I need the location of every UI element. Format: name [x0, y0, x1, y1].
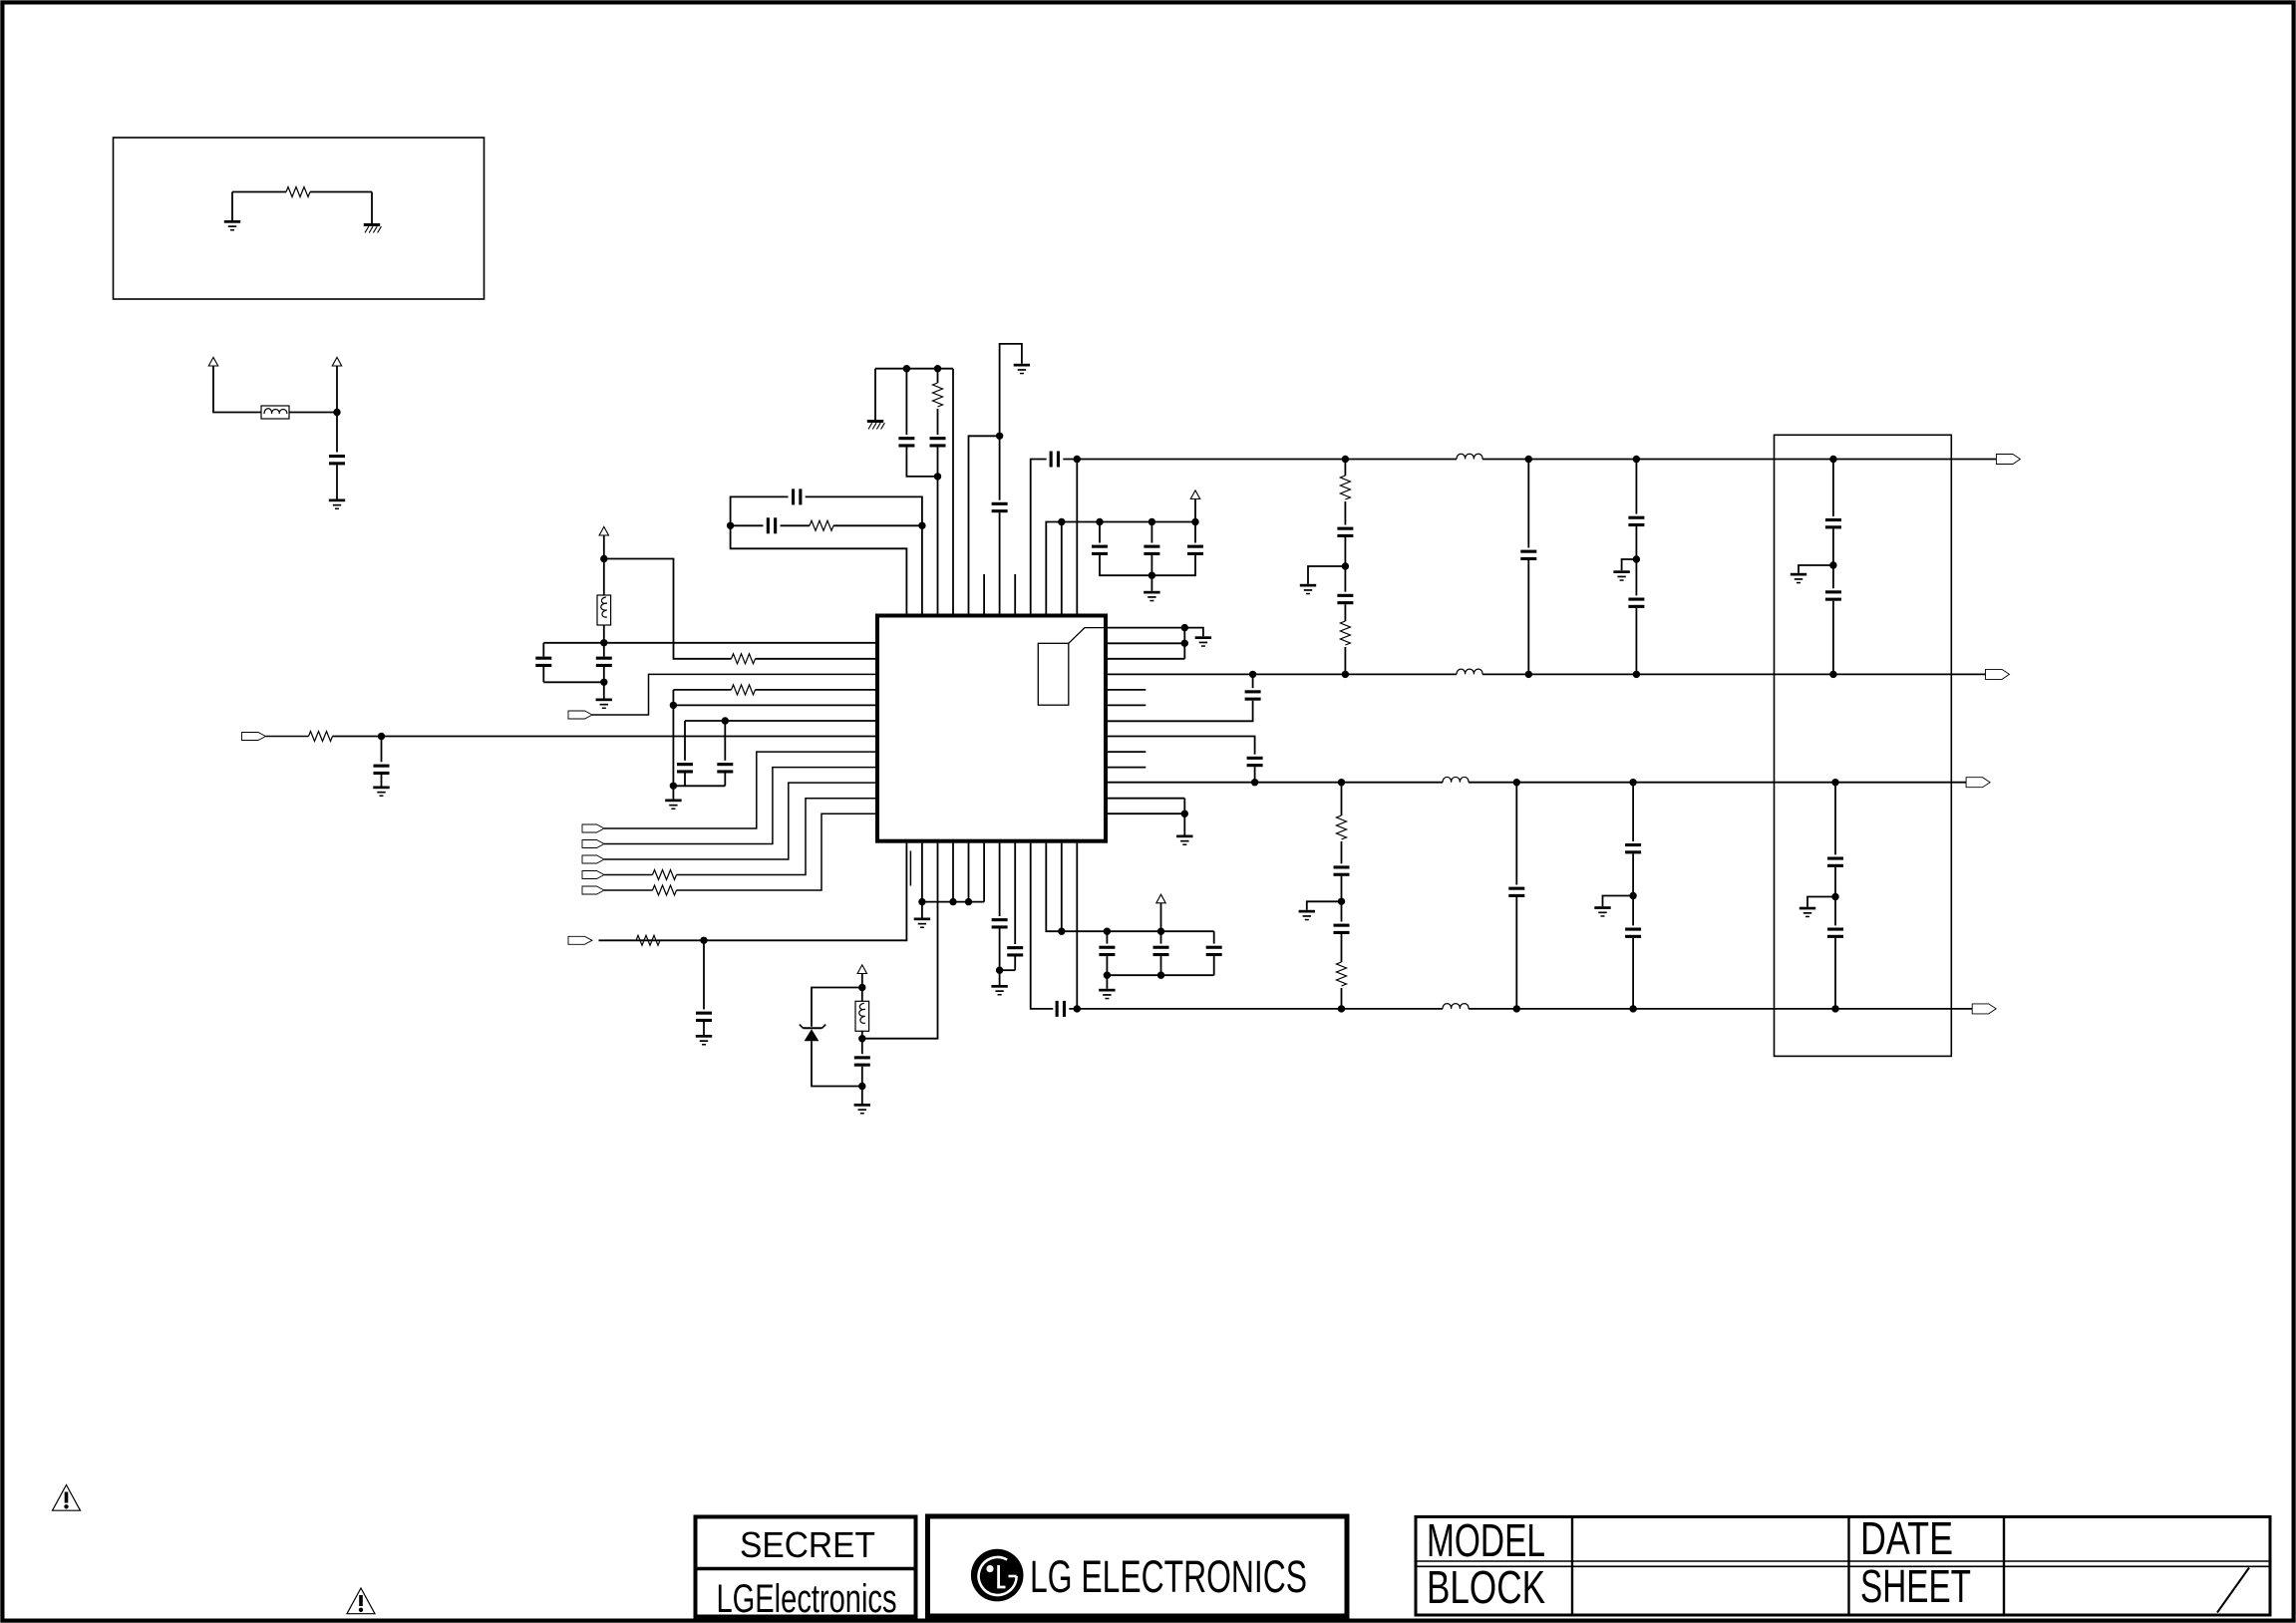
wire pinR9 stub — [1108, 767, 1146, 769]
wire — [604, 874, 653, 876]
svg-text:SHEET: SHEET — [1860, 1560, 1971, 1612]
wire — [703, 1022, 705, 1035]
wire — [806, 496, 922, 525]
resistor R6 — [933, 383, 943, 407]
connector tag OUT1 — [1996, 455, 2020, 465]
capacitor C6 — [374, 765, 390, 775]
wire — [673, 689, 731, 691]
wire — [1107, 974, 1213, 976]
capacitor C4 — [677, 763, 693, 773]
capacitor C26 — [1337, 527, 1353, 537]
wire — [1000, 344, 1022, 436]
wire — [1069, 628, 1108, 644]
wire pinR8 stub — [1108, 751, 1146, 753]
wire — [672, 705, 674, 786]
series capacitor C12 — [1050, 452, 1060, 468]
wire — [703, 940, 705, 1009]
wire — [1635, 526, 1637, 559]
capacitor C29 — [1628, 516, 1644, 526]
node junction — [1633, 671, 1640, 678]
wire — [1834, 897, 1836, 926]
capacitor C24 — [1245, 690, 1261, 700]
wire — [673, 785, 725, 787]
node junction — [1829, 561, 1836, 568]
title table col divider — [1571, 1517, 1573, 1616]
node junction — [1338, 1005, 1345, 1012]
node junction — [965, 898, 972, 905]
resistor R4 — [653, 870, 677, 880]
wire — [604, 768, 875, 844]
node junction — [1181, 640, 1188, 647]
wire — [1106, 956, 1108, 989]
wire — [1341, 876, 1343, 902]
node junction — [1148, 518, 1155, 525]
capacitor C36 — [1625, 843, 1641, 853]
wire pin5 — [673, 704, 875, 706]
wire — [1151, 555, 1195, 575]
resistor R11 — [1340, 621, 1350, 645]
wire pinR11 — [1108, 798, 1184, 800]
wire pinR4 stub — [1108, 689, 1146, 691]
node junction — [1831, 1005, 1838, 1012]
wire — [724, 721, 726, 761]
capacitor C39 — [1827, 928, 1843, 938]
svg-text:DATE: DATE — [1860, 1512, 1953, 1564]
resistor R9 — [636, 935, 660, 945]
wire — [542, 643, 544, 657]
node junction — [1633, 555, 1640, 562]
wire — [1527, 460, 1529, 548]
connector tag P2 — [242, 733, 266, 741]
wire — [336, 466, 338, 499]
node junction — [1148, 572, 1155, 579]
node junction — [858, 1035, 865, 1042]
wire pinT12 — [1076, 460, 1078, 614]
wire — [861, 1031, 863, 1039]
wire — [1000, 969, 1016, 971]
wire — [231, 192, 233, 221]
wire — [861, 1039, 863, 1055]
wire rail1 segment — [1063, 459, 1457, 461]
wire — [1308, 566, 1345, 584]
ferrite bead FB3 — [855, 1001, 869, 1031]
wire pinR12 — [1108, 812, 1184, 814]
wire — [874, 369, 876, 420]
title table row divider — [1416, 1560, 2270, 1562]
node junction — [670, 783, 677, 790]
wire — [861, 974, 863, 988]
wire — [684, 774, 686, 787]
wire — [684, 721, 686, 761]
wire — [1834, 867, 1836, 897]
wire — [906, 448, 937, 477]
power arrow VZ1 — [857, 965, 866, 974]
wire rail1 segment — [1482, 459, 1996, 461]
wire pinT2 — [921, 525, 923, 613]
series capacitor C9 — [767, 517, 777, 533]
secret box divider — [694, 1567, 918, 1570]
capacitor C5 — [717, 763, 733, 773]
wire rail4 segment — [1469, 1008, 1972, 1010]
wire — [1150, 522, 1152, 543]
capacitor C8 — [930, 437, 946, 447]
wire — [1254, 767, 1256, 783]
capacitor C31 — [1825, 518, 1841, 528]
wire — [875, 368, 953, 370]
wire — [1341, 841, 1343, 863]
wire pin2 — [756, 658, 876, 660]
ground — [696, 1035, 712, 1046]
wire — [833, 524, 922, 526]
wire — [604, 783, 875, 859]
wire — [999, 929, 1001, 986]
wire pinT10 — [1046, 522, 1195, 614]
capacitor C37 — [1625, 928, 1641, 938]
wire — [1635, 460, 1637, 514]
warning triangle 2 — [347, 1588, 375, 1614]
wire — [812, 1041, 862, 1086]
wire — [603, 559, 605, 596]
wire pinT9 — [1031, 460, 1047, 614]
wire — [1014, 957, 1016, 971]
wire — [1108, 628, 1203, 637]
LG logo ring — [979, 1557, 1017, 1595]
node junction — [600, 679, 607, 686]
wire rail2 segment — [1482, 673, 1986, 675]
wire — [1183, 799, 1185, 814]
wire — [937, 448, 939, 477]
node junction — [1181, 811, 1188, 817]
svg-text:MODEL: MODEL — [1427, 1514, 1545, 1566]
node junction — [1181, 624, 1188, 631]
node junction — [1104, 928, 1111, 935]
capacitor C25 — [1247, 757, 1263, 767]
ground — [1014, 364, 1030, 375]
wire pin4 — [756, 689, 876, 691]
wire pinT6 stub — [983, 574, 985, 614]
wire — [1213, 956, 1215, 975]
capacitor C14 — [1144, 545, 1159, 555]
node junction — [1074, 456, 1081, 463]
node junction — [903, 365, 910, 372]
LG logo G bar — [1009, 1575, 1017, 1578]
node junction — [727, 522, 734, 529]
resistor R5 — [653, 885, 677, 895]
wire pinB10 — [1046, 843, 1213, 932]
ground — [1800, 907, 1815, 918]
wire — [1341, 934, 1343, 962]
wire — [603, 643, 605, 657]
wire — [1632, 896, 1634, 926]
capacitor C11 — [992, 502, 1008, 512]
wire — [677, 813, 876, 890]
node junction — [1629, 892, 1636, 899]
capacitor C7 — [898, 437, 914, 447]
wire pinT5 — [969, 436, 1000, 613]
wire — [603, 682, 605, 698]
node junction — [918, 898, 925, 905]
capacitor C15 — [1187, 545, 1203, 555]
ground — [1144, 591, 1159, 602]
wire — [781, 524, 811, 526]
capacitor C27 — [1337, 594, 1353, 604]
node junction — [1525, 456, 1532, 463]
wire — [1344, 566, 1346, 592]
wire — [1832, 565, 1834, 588]
wire — [1515, 897, 1517, 1009]
wire — [1622, 559, 1637, 570]
resistor R13 — [1337, 962, 1347, 986]
node junction — [934, 365, 941, 372]
node junction — [1074, 1005, 1081, 1012]
wire — [672, 690, 674, 706]
ground — [854, 1104, 870, 1115]
wire — [604, 559, 732, 659]
wire — [861, 1067, 863, 1087]
wire — [213, 366, 261, 413]
wire — [1834, 938, 1836, 1009]
ground — [665, 800, 681, 811]
wire — [1252, 674, 1254, 688]
wire — [1100, 555, 1151, 575]
inductor L1 — [1457, 454, 1482, 459]
connector tag OUT3 — [1966, 778, 1990, 788]
wire pin1 rail — [543, 642, 875, 644]
ground — [1299, 910, 1315, 921]
chassis ground — [867, 420, 885, 430]
resistor R7 — [810, 520, 833, 530]
inductor L2 — [1443, 1004, 1469, 1009]
svg-text:LGElectronics: LGElectronics — [717, 1577, 897, 1621]
title table outline — [1416, 1517, 2270, 1616]
wire — [1344, 460, 1346, 477]
wire pinT3 — [937, 477, 939, 614]
power arrow VCC2 — [332, 357, 341, 366]
wire — [1832, 528, 1834, 565]
svg-text:SECRET: SECRET — [740, 1524, 875, 1565]
power arrow VA2 — [1156, 894, 1165, 903]
capacitor C16 — [696, 1012, 712, 1022]
wire — [542, 667, 544, 682]
wire — [1341, 783, 1343, 815]
node junction — [996, 967, 1003, 974]
wire — [1213, 931, 1215, 943]
wire — [1527, 560, 1529, 674]
title table row divider2 — [1416, 1565, 2270, 1567]
node junction — [700, 937, 707, 944]
wire pinT1 — [731, 525, 907, 613]
node junction — [378, 733, 385, 740]
wire — [861, 1087, 863, 1105]
wire — [1832, 601, 1834, 675]
title table col divider — [1847, 1517, 1849, 1616]
series capacitor C19 — [1056, 1001, 1066, 1017]
wire — [232, 191, 286, 193]
capacitor C3 — [596, 657, 612, 667]
connector tag P3 — [582, 824, 604, 832]
capacitor C20 — [1099, 946, 1115, 956]
svg-text:BLOCK: BLOCK — [1427, 1561, 1545, 1613]
wire — [861, 988, 863, 1002]
node junction — [949, 898, 956, 905]
ferrite bead FB1 — [261, 406, 289, 419]
node junction — [1338, 898, 1345, 905]
node junction — [333, 409, 340, 416]
wire pinB5 — [968, 843, 970, 902]
wire — [1344, 647, 1346, 674]
wire pinB8 — [1014, 843, 1016, 944]
wire pinB6 — [983, 843, 985, 902]
capacitor C38 — [1827, 857, 1843, 867]
node junction — [600, 555, 607, 562]
node junction — [1104, 972, 1111, 979]
wire — [1099, 522, 1101, 543]
wire — [266, 736, 309, 738]
node junction — [1157, 972, 1164, 979]
ground — [373, 787, 389, 798]
wire pinT8 stub — [1014, 574, 1016, 614]
IC U1 inner block — [1038, 643, 1069, 705]
capacitor C30 — [1628, 598, 1644, 608]
wire — [905, 369, 907, 435]
title table col divider — [2003, 1517, 2005, 1616]
wire — [289, 412, 337, 414]
node junction — [1513, 1005, 1520, 1012]
wire — [336, 366, 338, 413]
inductor L4 — [1443, 777, 1469, 782]
wire — [724, 774, 726, 787]
ground — [1176, 835, 1192, 846]
wire pinB12 — [1076, 843, 1078, 1009]
warning triangle 1 — [53, 1485, 81, 1511]
connector tag P4 — [582, 840, 604, 848]
inductor L3 — [1457, 669, 1482, 674]
node junction — [858, 984, 865, 991]
node junction — [858, 1083, 865, 1090]
wire — [1635, 608, 1637, 675]
node junction — [1342, 456, 1349, 463]
wire — [672, 786, 674, 799]
LG logo box — [928, 1516, 1348, 1616]
sheet slash — [2217, 1568, 2249, 1613]
wire — [371, 192, 373, 224]
wire pinR7 — [1108, 737, 1255, 755]
wire pinB2 — [921, 843, 923, 918]
wire — [1799, 565, 1833, 573]
ground — [1613, 570, 1629, 581]
ground — [914, 918, 930, 929]
wire — [731, 524, 764, 526]
LG logo circle — [971, 1549, 1024, 1602]
wire pinB7 — [999, 843, 1001, 916]
capacitor C17 — [992, 918, 1008, 928]
module box — [1775, 435, 1952, 1056]
wire — [1632, 783, 1634, 841]
power arrow VA1 — [1190, 490, 1199, 499]
power arrow VCC1 — [208, 357, 217, 366]
capacitor C32 — [1825, 590, 1841, 600]
wire pinB4 — [952, 843, 954, 902]
wire — [310, 191, 372, 193]
ground — [1099, 989, 1115, 1000]
resistor R100 — [286, 187, 310, 197]
node junction — [722, 717, 729, 724]
wire — [604, 752, 875, 828]
wire — [1632, 938, 1634, 1009]
wire rail2 segment — [1108, 673, 1457, 675]
node junction — [1831, 893, 1838, 900]
wire — [543, 681, 604, 683]
node junction — [918, 522, 925, 529]
capacitor C35 — [1334, 924, 1350, 934]
wire rail4 segment — [1069, 1008, 1443, 1010]
wire — [336, 413, 338, 453]
wire — [603, 667, 605, 682]
wire pinB11 — [1061, 843, 1063, 932]
wire pinR1 — [1108, 642, 1184, 644]
ferrite bead FB2 — [597, 595, 611, 625]
IC U1 body — [877, 616, 1106, 841]
wire — [604, 889, 653, 891]
node junction — [996, 433, 1003, 440]
wire — [1160, 903, 1162, 944]
power arrow VDD1 — [599, 526, 608, 535]
wire — [1344, 537, 1346, 566]
node junction — [934, 473, 941, 480]
wire — [603, 535, 605, 559]
resistor R1 — [732, 654, 756, 664]
wire pinB9 — [1031, 843, 1054, 1009]
wire — [381, 737, 383, 763]
wire — [1194, 522, 1196, 543]
wire pinT4 — [952, 369, 954, 614]
ground — [1300, 584, 1316, 595]
node junction — [1831, 779, 1838, 786]
connector tag OUT2 — [1986, 669, 2010, 679]
wire — [1632, 853, 1634, 895]
connector tag P1 — [568, 711, 592, 719]
node junction — [1629, 1005, 1636, 1012]
resistor R12 — [1337, 815, 1347, 839]
wire — [603, 625, 605, 643]
wire — [1344, 501, 1346, 525]
wire — [1341, 988, 1343, 1009]
wire — [1344, 604, 1346, 621]
wire — [1150, 555, 1152, 591]
node junction — [1633, 456, 1640, 463]
node junction — [1338, 779, 1345, 786]
node junction — [1525, 671, 1532, 678]
wire pinT11 — [1061, 522, 1063, 614]
wire — [812, 988, 862, 1027]
node junction — [1058, 928, 1065, 935]
wire — [731, 496, 789, 525]
wire — [1106, 931, 1108, 943]
capacitor C2 — [535, 657, 551, 667]
connector tag P5 — [582, 855, 604, 863]
ground — [1195, 636, 1211, 647]
node junction — [1629, 779, 1636, 786]
connector tag OUT4 — [1972, 1004, 1996, 1014]
wire — [937, 409, 939, 435]
capacitor C28 — [1520, 550, 1536, 560]
wire — [1160, 956, 1162, 975]
LG logo dot — [986, 1565, 993, 1572]
resistor R2 — [732, 685, 756, 695]
ground — [596, 699, 612, 710]
capacitor C33 — [1508, 887, 1524, 897]
wire pin6 — [685, 720, 875, 722]
